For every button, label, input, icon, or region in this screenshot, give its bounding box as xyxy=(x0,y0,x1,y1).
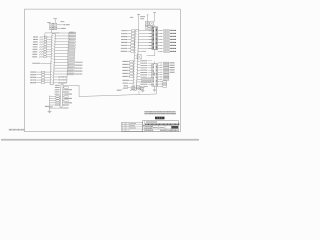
U2 right net 11 xyxy=(158,86,167,88)
net flag N17 xyxy=(54,79,67,81)
connector CN1 body xyxy=(50,34,55,85)
filter F2 xyxy=(128,33,135,35)
series resistor RB2 xyxy=(36,74,50,76)
wire CN2-U1 row 5 xyxy=(138,41,152,43)
net flag N14 xyxy=(54,70,74,72)
net name ext N15 xyxy=(75,73,82,75)
input label A5 xyxy=(33,46,38,48)
power rail +5V (left) xyxy=(53,19,57,24)
U2 ground drop xyxy=(154,86,156,90)
power rail (mid) xyxy=(137,14,140,29)
bus wire across sheet xyxy=(79,85,156,96)
title block frame xyxy=(143,121,179,132)
U1 output net 4 xyxy=(158,39,176,41)
bead FB1 xyxy=(40,36,44,38)
U2 left pin label 7 xyxy=(140,74,152,76)
U2 left pin label 4 xyxy=(140,67,152,69)
wire CN2-U1 row 3 xyxy=(139,36,152,38)
input label A2 xyxy=(33,38,38,40)
net flag N7 xyxy=(55,50,75,52)
bead FB3 xyxy=(39,41,43,43)
U2 left pin label 3 xyxy=(140,64,152,66)
U1 output net 7 xyxy=(158,48,176,50)
pull-up branch long xyxy=(50,107,69,109)
filter G3 xyxy=(129,67,134,69)
U1 output net 2 xyxy=(158,33,176,35)
signal label RL1 xyxy=(123,60,129,62)
sheet background and frame xyxy=(0,0,200,145)
signal label RL4 xyxy=(123,69,129,71)
U2 left pin label 5 xyxy=(140,69,152,71)
U2 right net 2 xyxy=(158,64,175,66)
CN1b net box 8 xyxy=(62,100,68,102)
IC U1 xyxy=(152,27,158,50)
notes text row 1 xyxy=(145,111,176,113)
U2 right net 9 xyxy=(158,81,167,83)
signal label low3 xyxy=(117,88,124,90)
input label A9 xyxy=(32,56,37,58)
filter C10 xyxy=(44,53,52,55)
filter G1 xyxy=(129,61,134,63)
U1 output net 5 xyxy=(158,42,176,44)
net label text xyxy=(61,27,65,29)
wire CN2-U1 row 7 xyxy=(138,47,152,49)
wire A10 xyxy=(40,62,51,64)
diode D1 xyxy=(124,85,127,88)
power net names xyxy=(140,17,145,19)
net flag N15 xyxy=(54,73,74,75)
input label B2 xyxy=(30,74,36,76)
signal label RU3 xyxy=(121,36,127,38)
input label B4 xyxy=(30,79,36,81)
net flag N4 xyxy=(55,41,75,43)
CN1b pin label 1 xyxy=(55,84,60,86)
bead FB7 xyxy=(39,51,43,53)
wire CN2 low 6 xyxy=(137,76,140,78)
CN1b net text 3 xyxy=(63,89,72,91)
filter C3 xyxy=(44,36,52,38)
filter F7 xyxy=(127,48,134,50)
CN1b net text 5 xyxy=(63,93,72,95)
filter G4 xyxy=(129,70,134,72)
signal label RU8 xyxy=(121,50,127,52)
ground (left) xyxy=(48,111,52,113)
wire CN2 low 5 xyxy=(137,73,140,75)
wire VCC net xyxy=(57,24,66,25)
net label VCC text xyxy=(66,24,70,26)
U2 left pin label 2 xyxy=(140,62,152,64)
CN1b net text 7 xyxy=(62,97,72,99)
filter C5 xyxy=(44,41,52,43)
input label A10 wide xyxy=(32,62,40,64)
transistor Q1 xyxy=(130,87,135,91)
net flag N9 xyxy=(54,56,74,58)
net name ext N11 xyxy=(75,61,82,63)
wire CN2 out row 8 xyxy=(138,50,146,52)
net text above xyxy=(61,21,65,23)
input label A3 xyxy=(33,41,38,43)
wire CN2 low 1 xyxy=(138,61,140,63)
wire CN2-U1 row 6 xyxy=(138,44,152,46)
wire CN2 low 4 xyxy=(137,70,140,72)
net flag N18 xyxy=(53,82,66,84)
net flag N2 xyxy=(55,35,75,37)
signal label row13 xyxy=(123,79,134,81)
filter G5 xyxy=(129,73,134,75)
filter G6 xyxy=(129,76,134,78)
ground (under U2) xyxy=(153,90,157,92)
filter C6 xyxy=(44,44,52,46)
bead FB4 xyxy=(39,44,43,46)
microfilm code text xyxy=(9,129,24,131)
input label B5 xyxy=(30,82,36,84)
CN1b pin label 2 xyxy=(55,87,60,89)
U1 output net 3 xyxy=(158,36,176,38)
filter C8 xyxy=(44,49,52,51)
filter C4 xyxy=(44,39,52,41)
CN1b net text 9 xyxy=(62,102,72,104)
input label B3 xyxy=(30,76,36,78)
bead FB5 xyxy=(39,46,43,48)
title text row 2 drawing title xyxy=(145,123,179,125)
IC U2 xyxy=(152,61,158,86)
net flag N11 xyxy=(54,61,74,63)
capacitor C13 xyxy=(137,87,148,90)
net label text mid xyxy=(130,16,133,18)
net flag N6 xyxy=(55,47,75,49)
U2 right net 7 xyxy=(158,76,169,78)
U2 left boxed net 9 xyxy=(137,79,151,81)
drawing number dark cell xyxy=(172,126,179,129)
input label A6 xyxy=(33,48,38,50)
U2 right net 4 xyxy=(158,69,175,71)
wire CN2 low 2 xyxy=(138,64,140,66)
CN1b pin label 4 xyxy=(55,91,60,93)
power rail VH (left) xyxy=(47,21,51,24)
net name ext N14 xyxy=(75,70,82,72)
series resistor RB4 xyxy=(36,79,50,81)
U2 right net 1 xyxy=(158,62,175,64)
U2 left pin label 6 xyxy=(140,72,152,74)
U2 left boxed net 10 xyxy=(137,81,151,83)
signal label RU4 xyxy=(121,39,127,41)
manufacturer logo xyxy=(155,117,165,120)
wire CN2-U1 row 4 xyxy=(139,39,152,41)
U1 output net 6 xyxy=(158,45,176,47)
signal label RU7 xyxy=(121,47,127,49)
connector CN1b body xyxy=(60,84,63,107)
U2 right net 5 xyxy=(158,72,175,74)
signal label RL6 xyxy=(123,75,129,77)
net flag N12 xyxy=(54,64,74,66)
wire header xyxy=(45,30,59,37)
bead FB8 xyxy=(39,54,43,56)
title block dividers xyxy=(143,125,179,131)
power rail B (right) xyxy=(153,13,156,22)
power rail A (right) xyxy=(147,15,152,28)
bead FB6 xyxy=(39,49,43,51)
pull-up resistor T5 xyxy=(50,104,61,106)
net name ext N12 xyxy=(75,64,82,66)
CN1b pin label 3 xyxy=(55,89,60,91)
capacitor C11 xyxy=(150,22,154,26)
series resistor RB1 xyxy=(37,71,51,73)
ground (left of U2) xyxy=(141,90,144,92)
signal label RU2 xyxy=(121,33,127,35)
wire CN2-U1 row 2 xyxy=(139,33,152,35)
net flag N1 xyxy=(55,32,75,34)
CN1b net box 4 xyxy=(63,91,69,93)
signal label RU5 xyxy=(121,41,127,43)
U1 output net 8 xyxy=(158,51,176,53)
capacitor C1 xyxy=(50,23,53,26)
pull-up resistor T3 xyxy=(50,100,61,102)
filter C7 xyxy=(44,46,52,48)
CN1b net box 2 xyxy=(63,87,68,89)
wire CN2-U1 row 1 xyxy=(139,30,152,32)
cluster wires xyxy=(127,87,144,95)
net flag N5 xyxy=(55,44,75,46)
filter G2 xyxy=(129,64,134,66)
connector CN2 body xyxy=(133,30,139,90)
series resistor RB5 xyxy=(36,82,50,84)
capacitor C12 xyxy=(137,55,141,59)
U2 left pin label 1 xyxy=(140,60,152,62)
pull-up resistor T4 xyxy=(50,102,61,104)
signal label RU1 xyxy=(122,30,128,32)
capacitor C10 xyxy=(145,22,149,26)
net flag N10 xyxy=(54,58,74,60)
signal label row14 xyxy=(123,82,134,84)
filter F3 xyxy=(128,36,135,38)
U1 ground drop xyxy=(147,50,155,56)
net flag N13 xyxy=(54,67,74,69)
input label B1 xyxy=(30,71,36,73)
tree refdes text xyxy=(49,106,53,108)
CN1b net box 6 xyxy=(63,96,69,98)
U2 right net 6 xyxy=(158,74,169,76)
pull-up resistor T2 xyxy=(50,98,61,100)
U2 right net 3 xyxy=(158,67,175,69)
capacitor C2 xyxy=(53,23,56,26)
signal label RU6 xyxy=(121,44,127,46)
filter F5 xyxy=(128,42,135,44)
transistor Q2 xyxy=(137,86,142,90)
input label A4 xyxy=(33,43,38,45)
U2 left pin label 8 xyxy=(140,76,152,78)
input label A7 xyxy=(33,51,38,53)
net flag N8 xyxy=(55,53,75,55)
pull-up bus xyxy=(45,96,50,112)
wire U1 top pin xyxy=(154,25,156,27)
crystal X1 xyxy=(145,26,152,29)
filter F6 xyxy=(127,45,134,47)
bus wire takeoff xyxy=(63,85,79,96)
filter F4 xyxy=(128,39,135,41)
title text row 1 xyxy=(146,121,157,123)
CN1b pin label 5 xyxy=(55,93,60,95)
CN1b net box 10 xyxy=(62,104,68,106)
title block small text xyxy=(145,127,178,131)
input label A8 xyxy=(32,53,37,55)
wire R1 out xyxy=(57,28,62,30)
U2 left pin label 11 xyxy=(140,83,152,85)
bead FB9 xyxy=(39,56,43,58)
U1 output net 1 xyxy=(158,30,176,32)
notes text row 2 xyxy=(145,113,177,115)
filter C11 xyxy=(43,56,51,58)
series resistor RB3 xyxy=(36,77,50,79)
wire CN2 low 3 xyxy=(137,67,140,69)
U2 right net 10 xyxy=(158,83,167,85)
scanner streak xyxy=(1,138,199,141)
U2 right net 8 xyxy=(158,79,169,81)
signal label RL3 xyxy=(123,66,129,68)
net name ext N13 xyxy=(75,67,82,69)
filter F1 xyxy=(128,30,135,32)
net flag N16 xyxy=(54,76,67,78)
resistor R1 pair xyxy=(50,27,57,30)
revision table xyxy=(121,122,142,131)
bead FB2 xyxy=(40,39,44,41)
pull-up resistor T1 xyxy=(50,96,61,98)
signal label RL2 xyxy=(123,63,129,65)
signal label RL5 xyxy=(123,72,129,74)
filter F8 xyxy=(127,50,134,52)
net flag N3 xyxy=(55,38,75,40)
filter C9 xyxy=(44,51,52,53)
input label A1 xyxy=(33,36,38,38)
net bus (left group) xyxy=(67,32,74,83)
